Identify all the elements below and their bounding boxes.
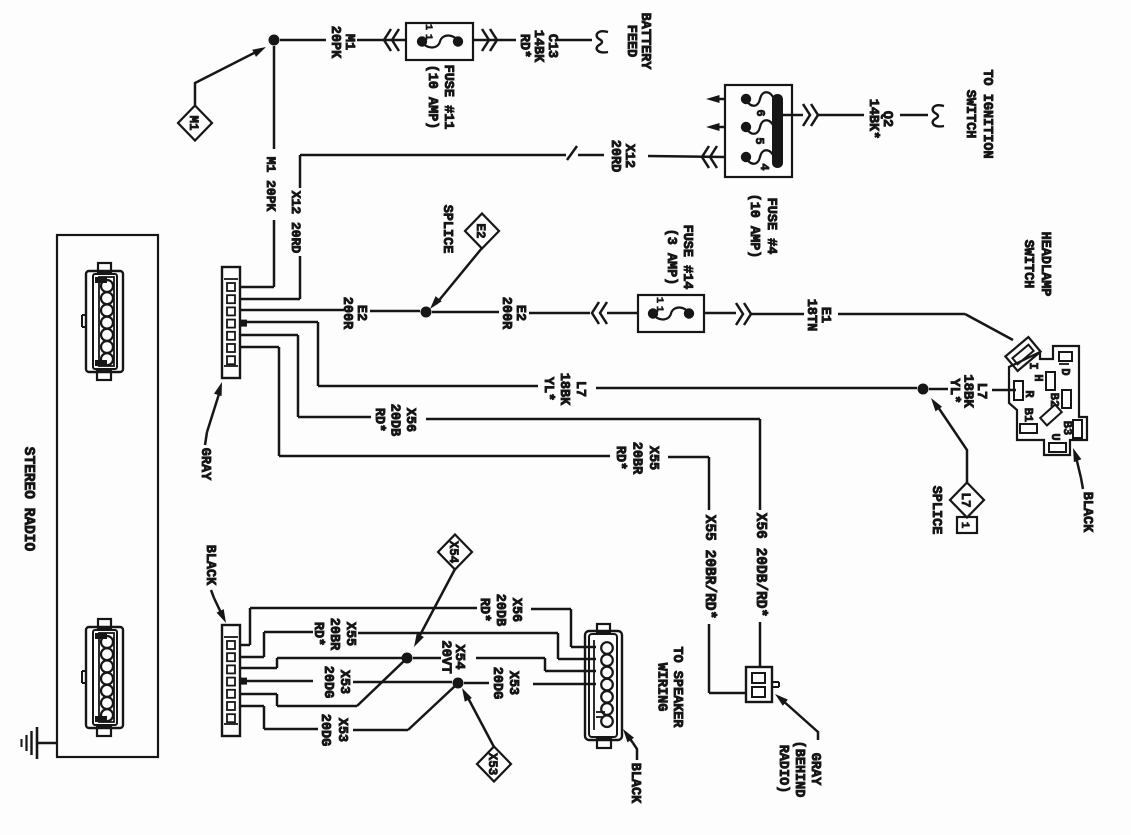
tick mark on X12 wire bbox=[567, 146, 577, 160]
svg-text:5: 5 bbox=[752, 137, 766, 144]
svg-text:E1: E1 bbox=[817, 307, 832, 323]
svg-text:X53: X53 bbox=[336, 670, 351, 694]
svg-text:X56: X56 bbox=[508, 598, 523, 622]
label TO IGNITION SWITCH bbox=[962, 69, 994, 158]
svg-text:STEREO RADIO: STEREO RADIO bbox=[20, 447, 36, 552]
label BLACK (headlamp) with leader bbox=[1073, 448, 1094, 533]
label I (terminal) bbox=[1026, 362, 1040, 369]
junction node E2 splice point bbox=[421, 307, 432, 318]
svg-text:M1 20PK: M1 20PK bbox=[263, 157, 278, 212]
radio connector (bottom, mates black) bbox=[82, 619, 123, 736]
svg-text:TO IGNITION: TO IGNITION bbox=[979, 69, 994, 158]
terminal H bbox=[1046, 372, 1055, 390]
label E2 200R (right) bbox=[498, 297, 527, 330]
label Q2 14BK* bbox=[865, 99, 894, 140]
ground symbol bbox=[22, 727, 58, 759]
headlamp switch connector body bbox=[1005, 337, 1087, 455]
label B1 bbox=[1021, 408, 1035, 422]
svg-text:YL*: YL* bbox=[946, 378, 962, 403]
label E2 200R (left) bbox=[339, 297, 368, 330]
svg-text:1: 1 bbox=[653, 306, 665, 312]
svg-text:RD*: RD* bbox=[516, 34, 531, 58]
connector chevron (left of fuse 14) bbox=[592, 302, 607, 324]
wire M1 20PK to fuse 11 bbox=[280, 39, 406, 42]
pin label 1 (fuse 11 right) bbox=[422, 34, 434, 40]
fuse F11 (10 AMP) bbox=[406, 23, 473, 60]
svg-text:18TN: 18TN bbox=[803, 299, 818, 331]
svg-text:YL*: YL* bbox=[540, 377, 555, 401]
svg-text:1: 1 bbox=[422, 34, 434, 40]
wire X54 20VT bbox=[240, 658, 596, 671]
svg-text:M1: M1 bbox=[186, 115, 200, 130]
svg-text:X55 20BR/RD*: X55 20BR/RD* bbox=[701, 515, 717, 619]
svg-text:X12: X12 bbox=[621, 144, 636, 168]
fuse F14 (3 AMP) bbox=[638, 295, 704, 332]
wire L7 18BK YL* from gray connector pin 4 bbox=[240, 322, 917, 388]
label X54 20VT bbox=[438, 640, 468, 674]
svg-text:L7: L7 bbox=[572, 381, 587, 397]
connector GRAY (BEHIND RADIO) bbox=[746, 667, 779, 702]
junction node M1 splice point bbox=[269, 35, 280, 46]
label X12 20RD (vertical) bbox=[288, 191, 303, 254]
label TO SPEAKER WIRING bbox=[654, 646, 685, 728]
splice X54 diamond bbox=[438, 535, 472, 570]
leader from splice M1 to node bbox=[195, 47, 266, 105]
splice E2 diamond bbox=[465, 214, 499, 249]
wire X55 20BR RD* bbox=[240, 347, 709, 457]
svg-text:RD*: RD* bbox=[612, 446, 627, 470]
stub arrow fuse 4 pin 6 bbox=[706, 95, 725, 103]
label U bbox=[1048, 433, 1062, 440]
svg-text:14BK: 14BK bbox=[530, 30, 545, 63]
connector chevron in-line (left of fuse 11) bbox=[384, 29, 399, 51]
terminal B3 bbox=[1073, 420, 1082, 438]
svg-text:E2: E2 bbox=[512, 305, 527, 321]
svg-text:(3 AMP): (3 AMP) bbox=[663, 229, 678, 286]
svg-text:18BK: 18BK bbox=[556, 373, 571, 406]
label GRAY with leader bbox=[197, 382, 222, 481]
svg-text:SWITCH: SWITCH bbox=[1020, 240, 1035, 289]
svg-text:U: U bbox=[1048, 433, 1062, 440]
radio connector (top, mates gray) bbox=[82, 263, 123, 380]
svg-text:(10 AMP): (10 AMP) bbox=[424, 65, 439, 130]
svg-text:L7: L7 bbox=[958, 492, 972, 507]
wire C13 14BK RD* bbox=[473, 39, 592, 42]
label R bbox=[1022, 390, 1036, 398]
svg-text:HEADLAMP: HEADLAMP bbox=[1037, 232, 1052, 297]
label X55 20BR/RD* (vertical) bbox=[701, 515, 717, 619]
svg-text:E2: E2 bbox=[353, 305, 368, 321]
leader from splice X54 bbox=[414, 569, 455, 647]
svg-text:200R: 200R bbox=[339, 297, 354, 330]
label SPLICE (E2) bbox=[439, 205, 454, 254]
splice X53 diamond bbox=[477, 747, 511, 782]
label X53 20DG (bottom) bbox=[317, 714, 349, 746]
svg-text:14BK*: 14BK* bbox=[865, 99, 880, 140]
label SPLICE (L7) bbox=[928, 486, 943, 535]
wire X55 20BR RD* (bottom) bbox=[240, 632, 596, 659]
label X12 20RD (on horizontal) bbox=[607, 140, 636, 172]
label BATTERY FEED bbox=[623, 13, 652, 71]
fuse F4 (10 AMP) block with bus bar bbox=[725, 85, 792, 177]
svg-text:R: R bbox=[1022, 390, 1036, 398]
svg-text:RD*: RD* bbox=[310, 622, 325, 646]
wire X56 20DB/RD* vertical bbox=[759, 419, 762, 668]
terminal (tilted, unlabeled) bbox=[1040, 405, 1062, 426]
svg-text:TO SPEAKER: TO SPEAKER bbox=[669, 646, 684, 728]
wire X56 20DB RD* (bottom) bbox=[240, 608, 596, 647]
wire X55 20BR/RD* vertical bbox=[709, 457, 746, 693]
wire X12 20RD horizontal bbox=[300, 155, 725, 157]
svg-text:20DG: 20DG bbox=[320, 666, 335, 698]
svg-text:6: 6 bbox=[753, 109, 767, 116]
label X53 20DG (left) bbox=[320, 666, 351, 698]
svg-text:20DB: 20DB bbox=[387, 404, 402, 436]
label X56 20DB RD* bbox=[371, 404, 417, 436]
battery feed continuation squiggle bbox=[597, 31, 608, 52]
junction node X54 splice point bbox=[402, 653, 413, 664]
wire M1 20PK vertical bbox=[240, 46, 274, 287]
svg-text:20BR: 20BR bbox=[629, 442, 644, 475]
svg-text:GRAY: GRAY bbox=[197, 448, 212, 481]
label C13 14BK RD* bbox=[516, 30, 559, 63]
svg-text:FEED: FEED bbox=[623, 25, 638, 57]
svg-text:GRAY: GRAY bbox=[807, 753, 822, 786]
wire X53 20DG (pin4) bbox=[240, 681, 596, 684]
svg-text:WIRING: WIRING bbox=[654, 663, 669, 712]
pin label 1 (fuse 11 left) bbox=[422, 24, 434, 30]
svg-text:BLACK: BLACK bbox=[202, 545, 217, 586]
stereo radio box bbox=[57, 235, 158, 757]
svg-text:X55: X55 bbox=[342, 622, 357, 646]
ignition feed continuation squiggle bbox=[933, 105, 944, 126]
terminal B2 bbox=[1062, 390, 1071, 408]
gray connector (radio) bbox=[222, 267, 247, 378]
pin label 4 bbox=[757, 163, 771, 170]
leader from splice E2 to node bbox=[430, 248, 482, 309]
stub arrow fuse 4 pin 5 bbox=[706, 123, 725, 131]
leader from splice L7 to node bbox=[931, 398, 967, 482]
svg-text:D: D bbox=[1058, 368, 1072, 375]
svg-text:1: 1 bbox=[958, 522, 970, 529]
label H bbox=[1031, 374, 1045, 381]
svg-text:20DB: 20DB bbox=[492, 594, 507, 626]
svg-text:X53: X53 bbox=[334, 718, 349, 742]
svg-text:(BEHIND: (BEHIND bbox=[791, 741, 806, 798]
svg-text:20BR: 20BR bbox=[326, 618, 341, 651]
label FUSE #11 (10 AMP) bbox=[424, 65, 455, 130]
svg-text:M1: M1 bbox=[341, 34, 356, 50]
terminal U bbox=[1049, 443, 1066, 452]
svg-text:4: 4 bbox=[757, 163, 771, 170]
label L7 18BK YL* (left) bbox=[540, 373, 587, 406]
wire E1 18TN to headlamp switch bbox=[704, 313, 1013, 340]
svg-text:BLACK: BLACK bbox=[1079, 492, 1094, 533]
splice L7 diamond bbox=[950, 483, 984, 518]
terminal R bbox=[1014, 381, 1023, 400]
pin label 1 (fuse 14 left) bbox=[653, 297, 665, 303]
splice M1 diamond bbox=[178, 106, 212, 141]
connector chevron (right of fuse 4) bbox=[803, 104, 818, 126]
label FUSE #14 (3 AMP) bbox=[663, 225, 694, 290]
label BLACK (speaker) with leader bbox=[623, 729, 642, 804]
label X56 20DB RD* (bottom) bbox=[476, 594, 523, 626]
terminal D bbox=[1059, 352, 1072, 364]
label BLACK with leader bbox=[202, 545, 226, 623]
connector chevron (right of fuse 14) bbox=[736, 303, 751, 325]
pin label 6 bbox=[753, 109, 767, 116]
svg-text:RADIO): RADIO) bbox=[775, 745, 790, 794]
svg-text:(10 AMP): (10 AMP) bbox=[746, 194, 761, 259]
label STEREO RADIO bbox=[20, 447, 36, 552]
label D bbox=[1058, 368, 1072, 375]
svg-text:C13: C13 bbox=[544, 34, 559, 58]
wire E2 200R to fuse 14 bbox=[432, 312, 638, 313]
wire Q2 14BK* to ignition switch bbox=[783, 114, 928, 117]
speaker harness connector (black) bbox=[585, 624, 622, 748]
label GRAY (BEHIND RADIO) with leader bbox=[775, 694, 822, 797]
junction node L7 splice point bbox=[918, 384, 929, 395]
label X56 20DB/RD* (vertical) bbox=[752, 513, 768, 617]
svg-text:20DG: 20DG bbox=[317, 714, 332, 746]
label HEADLAMP SWITCH bbox=[1020, 232, 1052, 297]
svg-text:FUSE #14: FUSE #14 bbox=[679, 225, 694, 290]
svg-text:X53: X53 bbox=[505, 671, 520, 695]
svg-text:X12 20RD: X12 20RD bbox=[288, 191, 303, 254]
svg-text:20VT: 20VT bbox=[438, 640, 454, 674]
label X55 20BR RD* (bottom) bbox=[310, 618, 357, 651]
svg-text:20RD: 20RD bbox=[607, 140, 622, 172]
svg-text:20DG: 20DG bbox=[489, 667, 504, 699]
terminal B1 bbox=[1020, 424, 1037, 433]
svg-text:20PK: 20PK bbox=[327, 26, 342, 59]
connector chevron out-line (right of fuse 11) bbox=[482, 29, 497, 51]
wire to X54 splice from pin5 bbox=[240, 661, 404, 706]
svg-text:SPLICE: SPLICE bbox=[928, 486, 943, 535]
label L7 18BK YL* (right) bbox=[946, 374, 989, 408]
svg-text:FUSE #4: FUSE #4 bbox=[763, 198, 778, 255]
junction node X53 splice point bbox=[453, 678, 464, 689]
svg-text:FUSE #11: FUSE #11 bbox=[440, 65, 455, 130]
label B3 bbox=[1060, 421, 1074, 435]
svg-text:E2: E2 bbox=[473, 223, 487, 238]
svg-text:B1: B1 bbox=[1021, 408, 1035, 422]
wire to X53 splice from pin6 bbox=[240, 686, 455, 730]
splice L7 tag box bbox=[957, 517, 977, 533]
svg-text:X56 20DB/RD*: X56 20DB/RD* bbox=[752, 513, 768, 617]
svg-text:SWITCH: SWITCH bbox=[962, 90, 977, 139]
svg-text:Q2: Q2 bbox=[879, 111, 894, 127]
pin label 5 bbox=[752, 137, 766, 144]
svg-text:BATTERY: BATTERY bbox=[637, 13, 652, 71]
svg-text:RD*: RD* bbox=[476, 598, 491, 622]
connector chevron (left of fuse 4) bbox=[702, 146, 717, 168]
pin label 1 (fuse 14 right) bbox=[653, 306, 665, 312]
black connector (radio) bbox=[222, 625, 247, 736]
svg-text:I: I bbox=[1026, 362, 1040, 369]
svg-text:RD*: RD* bbox=[371, 408, 386, 432]
label M1 20PK bbox=[327, 26, 356, 59]
wire L7 to headlamp switch R bbox=[929, 389, 1016, 390]
label X55 20BR RD* bbox=[612, 442, 660, 475]
svg-text:SPLICE: SPLICE bbox=[439, 205, 454, 254]
wire X12 20RD vertical bbox=[240, 155, 300, 299]
label X53 20DG (right) bbox=[489, 667, 520, 699]
svg-text:1: 1 bbox=[422, 24, 434, 30]
svg-text:X55: X55 bbox=[645, 446, 660, 470]
leader from splice X53 bbox=[462, 688, 494, 747]
svg-text:X53: X53 bbox=[485, 753, 499, 776]
label E1 18TN bbox=[803, 299, 832, 331]
svg-text:X56: X56 bbox=[402, 408, 417, 432]
svg-text:1: 1 bbox=[653, 297, 665, 303]
svg-text:H: H bbox=[1031, 374, 1045, 381]
svg-text:BLACK: BLACK bbox=[627, 763, 642, 804]
svg-text:200R: 200R bbox=[498, 297, 513, 330]
wire X56 20DB RD* bbox=[240, 335, 760, 419]
label B2 bbox=[1047, 393, 1061, 407]
label FUSE #4 (10 AMP) bbox=[746, 194, 778, 259]
wire E2 200R from gray connector bbox=[240, 310, 420, 311]
svg-text:X54: X54 bbox=[446, 541, 460, 564]
label M1 20PK (vertical) bbox=[263, 157, 278, 212]
